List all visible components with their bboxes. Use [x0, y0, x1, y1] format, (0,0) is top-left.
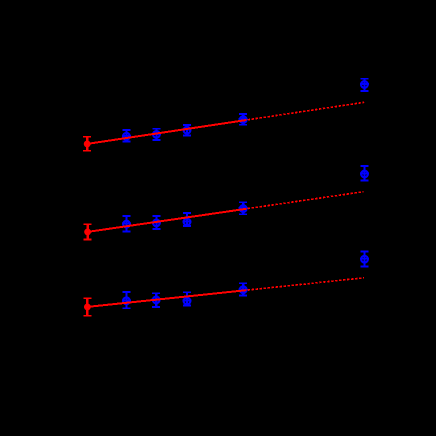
bottom series dotted red extrapolation line: [248, 278, 364, 290]
top series dotted red extrapolation line: [248, 102, 365, 120]
top series red filled data point with error bar: [83, 137, 91, 151]
top series blue open-circle data point B1 with error bars: [122, 130, 131, 142]
middle series blue open-circle data point B5 with error bars: [360, 166, 369, 180]
bottom series blue open-circle data point B2 with error bars: [152, 293, 161, 307]
middle series blue open-circle data point B2 with error bars: [152, 216, 161, 229]
middle series solid red fit line: [88, 209, 247, 232]
bottom series blue open-circle data point B3 with error bars: [183, 292, 192, 305]
middle series blue open-circle data point B3 with error bars: [183, 213, 192, 226]
top series blue open-circle data point B4 with error bars: [239, 114, 248, 125]
top series blue open-circle data point B5 with error bars: [360, 79, 369, 91]
bottom series red filled data point with error bar: [83, 298, 91, 315]
top series solid red fit line: [87, 120, 246, 144]
bottom series blue open-circle data point B5 with error bars: [360, 252, 369, 267]
bottom series solid red fit line: [87, 290, 246, 307]
bottom series blue open-circle data point B1 with error bars: [122, 292, 131, 308]
bottom series blue open-circle data point B4 with error bars: [239, 283, 248, 295]
middle series red filled data point with error bar: [84, 224, 92, 239]
middle series blue open-circle data point B4 with error bars: [239, 202, 248, 214]
middle series blue open-circle data point B1 with error bars: [122, 216, 131, 232]
top series blue open-circle data point B3 with error bars: [183, 125, 192, 136]
middle series dotted red extrapolation line: [248, 192, 364, 209]
top series blue open-circle data point B2 with error bars: [152, 129, 161, 140]
